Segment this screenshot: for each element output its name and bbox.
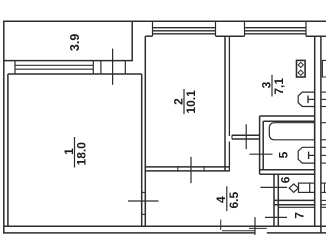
door room2 leaf <box>190 157 192 183</box>
entrance step line <box>222 230 255 232</box>
neighbour toilet stub <box>322 182 326 184</box>
window room3 glass lines <box>245 27 307 29</box>
room7 inner top line <box>278 206 314 208</box>
window room1 jambs <box>14 61 16 74</box>
wall room1 top outer face <box>3 60 132 62</box>
wall north outer face <box>3 20 326 22</box>
wall room2-kitchen west face <box>224 36 226 171</box>
wall rooms1-2 west face <box>141 74 143 226</box>
gas heater diamond bottom <box>298 70 303 75</box>
washbasin room5 inner tap <box>308 152 310 159</box>
svg-text:3.9: 3.9 <box>68 34 82 51</box>
neighbour washbasin stub <box>322 146 326 148</box>
wall balcony right <box>131 21 133 62</box>
wall bathroom top faces <box>260 115 315 117</box>
bathtub <box>269 123 314 140</box>
neighbour tub stub <box>322 122 326 124</box>
door balcony leaf <box>112 49 114 85</box>
entrance threshold line <box>249 227 267 229</box>
door entrance leaf <box>254 217 256 235</box>
wall bathroom bottom faces <box>260 169 315 171</box>
neighbour heater stub <box>322 60 326 77</box>
wall east inner face <box>314 36 316 226</box>
wall room1 top inner face <box>8 73 142 75</box>
gas heater <box>297 60 306 77</box>
wall rooms6-7 divider faces <box>274 199 315 201</box>
door kitchen leaf <box>245 124 247 149</box>
gas heater diamond top <box>298 62 303 67</box>
door room6 leaf <box>261 186 288 188</box>
wall bathroom left inner face <box>262 121 264 170</box>
svg-text:5: 5 <box>276 151 290 158</box>
kitchen sink inner tap <box>307 96 309 104</box>
wall north inner face segments <box>145 35 152 37</box>
washbasin room5 outline <box>298 147 315 163</box>
svg-text:7: 7 <box>293 212 307 219</box>
label room4 fraction bar <box>226 186 228 211</box>
door balcony jambs <box>100 61 102 74</box>
wall room2 bottom faces <box>145 166 230 168</box>
wall tick south <box>220 220 222 230</box>
wall rooms1-2 east face <box>144 36 146 226</box>
label room1 fraction bar <box>74 137 76 168</box>
window north jambs <box>152 21 154 36</box>
wall west outer face <box>3 61 5 234</box>
toilet body <box>299 183 315 192</box>
svg-text:10.1: 10.1 <box>184 90 198 114</box>
door bathroom leaf <box>250 153 273 155</box>
label room3 fraction bar <box>271 75 273 97</box>
door room1 jamb ticks <box>141 191 146 193</box>
toilet bowl diamond <box>289 184 298 192</box>
wall rooms6-7 left faces <box>273 174 275 226</box>
label room2 fraction bar <box>183 89 185 114</box>
kitchen sink outline <box>298 92 315 106</box>
wall south top face <box>3 225 326 227</box>
neighbour divider stub <box>321 199 326 201</box>
svg-text:7,1: 7,1 <box>272 78 286 95</box>
svg-text:6: 6 <box>279 176 293 183</box>
svg-text:18.0: 18.0 <box>75 142 89 166</box>
wall room2-kitchen east face <box>228 36 230 136</box>
wall west inner face <box>7 74 9 226</box>
wall balcony left <box>3 21 5 62</box>
neighbour sink stub <box>322 91 326 93</box>
door room2 jamb ticks <box>177 166 179 171</box>
wall south bottom face <box>3 232 255 234</box>
door room1 leaf <box>128 200 159 202</box>
svg-text:6.5: 6.5 <box>227 192 241 209</box>
wall bathroom left outer face <box>259 116 261 174</box>
window room2 glass lines <box>153 27 216 29</box>
wall kitchen south faces <box>232 134 260 136</box>
window room1 glass lines <box>15 64 93 66</box>
door room7 leaf <box>265 216 287 218</box>
toilet tank divider <box>309 183 311 192</box>
wall east outer face <box>320 36 322 233</box>
wall kitchen south jamb <box>231 135 233 139</box>
